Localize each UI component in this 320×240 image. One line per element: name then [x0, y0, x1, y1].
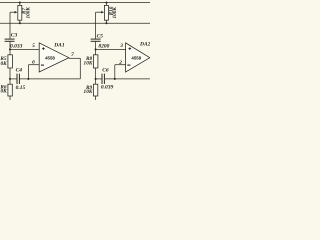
svg-text:7: 7 — [71, 52, 74, 58]
svg-text:4558: 4558 — [131, 55, 141, 60]
svg-text:4558: 4558 — [45, 55, 55, 60]
svg-text:10K: 10K — [84, 61, 93, 67]
svg-text:0.039: 0.039 — [101, 85, 114, 91]
svg-text:C4: C4 — [16, 67, 23, 73]
svg-text:100K: 100K — [112, 7, 118, 19]
svg-text:0.033: 0.033 — [10, 44, 23, 50]
svg-text:C5: C5 — [97, 34, 104, 40]
svg-text:8200: 8200 — [98, 43, 109, 49]
svg-text:3: 3 — [119, 43, 123, 49]
svg-text:6: 6 — [32, 59, 35, 65]
svg-text:100K: 100K — [26, 7, 32, 19]
svg-text:DA2: DA2 — [139, 41, 150, 47]
svg-text:C6: C6 — [102, 68, 109, 74]
svg-text:2: 2 — [118, 60, 122, 66]
svg-text:5: 5 — [32, 43, 35, 49]
svg-text:10K: 10K — [0, 61, 7, 67]
svg-text:0.15: 0.15 — [16, 85, 26, 91]
svg-text:10K: 10K — [84, 89, 93, 95]
svg-text:10K: 10K — [0, 89, 7, 95]
svg-text:C3: C3 — [11, 33, 18, 39]
svg-text:DA1: DA1 — [53, 42, 65, 48]
